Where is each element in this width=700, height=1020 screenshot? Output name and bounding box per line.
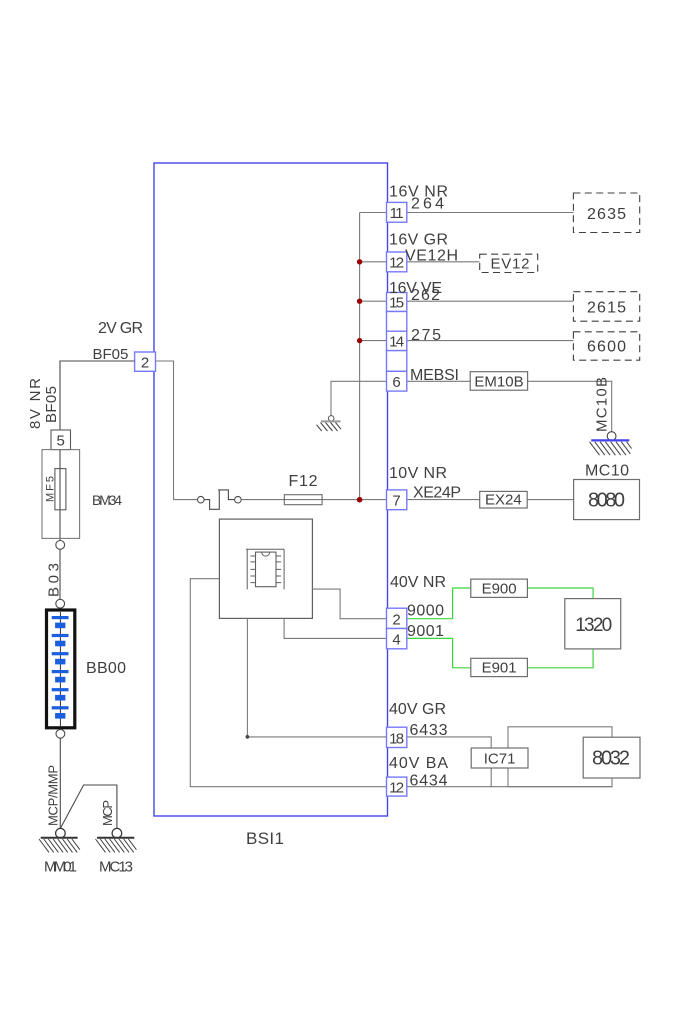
wire pin12 bottom external xyxy=(407,786,612,788)
ground internal BSI xyxy=(317,416,342,431)
svg-text:MCP/MMP: MCP/MMP xyxy=(46,765,61,826)
svg-text:MC13: MC13 xyxy=(99,859,133,876)
wire fuse F12 to pin 7 xyxy=(284,499,386,501)
wire pin15 to 2615 xyxy=(407,300,574,302)
svg-text:275: 275 xyxy=(411,327,441,344)
svg-text:MC10B: MC10B xyxy=(594,377,611,432)
svg-text:6434: 6434 xyxy=(410,773,448,790)
svg-text:9000: 9000 xyxy=(407,603,444,620)
pin 11 xyxy=(387,202,407,222)
wire pin15 internal xyxy=(360,300,387,302)
svg-text:8080: 8080 xyxy=(588,490,625,512)
pin 7 xyxy=(387,490,407,510)
svg-text:2615: 2615 xyxy=(587,300,626,317)
control unit BSI1 box xyxy=(154,163,388,816)
svg-text:IC71: IC71 xyxy=(484,751,516,768)
svg-text:EV12: EV12 xyxy=(491,256,530,273)
connector EX24 xyxy=(480,491,528,508)
pin 12 bottom xyxy=(387,777,407,796)
pin 12 xyxy=(387,252,407,272)
svg-text:16V GR: 16V GR xyxy=(389,232,448,249)
svg-text:E900: E900 xyxy=(482,581,517,598)
svg-text:VE12H: VE12H xyxy=(405,248,458,265)
connector 2615 dashed xyxy=(573,292,639,322)
wire pin12 to EV12 xyxy=(407,261,480,263)
wire pin12 internal xyxy=(360,261,387,263)
wire green 1320 to E901 xyxy=(527,649,593,668)
connector IC71 xyxy=(471,748,528,768)
wire pin14 to 6600 xyxy=(407,340,574,342)
connector EM10B xyxy=(470,372,527,391)
svg-text:6600: 6600 xyxy=(587,339,626,356)
svg-text:40V NR: 40V NR xyxy=(390,574,446,591)
svg-text:6433: 6433 xyxy=(410,722,448,739)
svg-text:14: 14 xyxy=(389,334,404,351)
connector E900 xyxy=(471,579,528,597)
junction elbow module-pin18 xyxy=(246,735,250,739)
pin 6 xyxy=(387,371,407,391)
wire module to pin4 xyxy=(284,618,386,638)
svg-text:8V NR: 8V NR xyxy=(27,378,44,429)
svg-text:9001: 9001 xyxy=(407,623,444,640)
svg-text:2635: 2635 xyxy=(587,206,626,223)
wire green E901 to pin4 xyxy=(407,638,471,667)
svg-text:BB00: BB00 xyxy=(86,660,126,677)
svg-text:1320: 1320 xyxy=(575,615,612,636)
empty pin cell xyxy=(387,312,407,332)
svg-text:12: 12 xyxy=(389,780,404,797)
svg-text:F12: F12 xyxy=(289,473,318,490)
IC U1 symbol xyxy=(246,549,284,589)
battery BB00 xyxy=(47,610,75,728)
ground MM01 xyxy=(39,828,80,852)
svg-text:264: 264 xyxy=(411,196,444,213)
svg-text:262: 262 xyxy=(411,287,440,304)
pin 4 right xyxy=(387,629,407,649)
svg-text:BF05: BF05 xyxy=(43,386,60,423)
svg-text:XE24P: XE24P xyxy=(413,485,461,502)
wire EX24 to 8080 xyxy=(527,499,573,501)
svg-text:MM01: MM01 xyxy=(44,859,77,876)
svg-text:7: 7 xyxy=(392,493,400,510)
ground MC13 xyxy=(96,828,137,852)
wire B03 xyxy=(59,549,61,599)
wire module to pin12 bottom xyxy=(190,579,386,787)
junction on bus at pin12 xyxy=(357,259,362,264)
fuse box BM34 xyxy=(42,450,80,539)
wire pin11 internal to bus xyxy=(360,212,387,214)
terminal circle battery top xyxy=(56,599,65,608)
svg-text:40V BA: 40V BA xyxy=(389,755,448,772)
connector 6600 dashed xyxy=(573,332,639,360)
wire pin11 to 2635 xyxy=(407,212,574,214)
svg-text:MF5: MF5 xyxy=(45,476,57,502)
connector 2635 dashed xyxy=(573,193,639,233)
connector EV12 dashed xyxy=(480,254,538,272)
wire EM10B to ground MC10B xyxy=(528,381,612,431)
wire pin2 left external xyxy=(60,361,135,430)
svg-text:8032: 8032 xyxy=(592,748,630,770)
svg-text:12: 12 xyxy=(389,255,404,272)
wire internal supply bus xyxy=(359,213,361,500)
wire pin7 to EX24 xyxy=(407,499,480,501)
svg-text:5: 5 xyxy=(57,433,65,450)
svg-text:4: 4 xyxy=(392,632,400,649)
svg-text:MCP: MCP xyxy=(100,800,115,826)
wire module to pin18 xyxy=(247,618,386,737)
junction on bus at pin14 xyxy=(357,338,362,343)
junction on bus at pin15 xyxy=(357,299,362,304)
pin 2 left xyxy=(135,352,156,372)
device 8032 xyxy=(583,737,640,778)
connector E901 xyxy=(471,658,528,676)
terminal circle below BM34 xyxy=(56,541,65,550)
svg-text:BSI1: BSI1 xyxy=(246,829,284,848)
wire loop rectangle IC71-8032 xyxy=(508,727,612,787)
pin 14 xyxy=(387,331,407,350)
pin 15 xyxy=(387,293,407,312)
svg-text:MC10: MC10 xyxy=(585,463,629,480)
svg-text:BM34: BM34 xyxy=(92,492,122,508)
empty pin cell xyxy=(387,351,407,372)
electronic module box inside BSI xyxy=(219,519,312,618)
wire through fuse MF5 xyxy=(59,450,61,541)
fuse MF5 xyxy=(55,469,66,510)
svg-text:40V GR: 40V GR xyxy=(389,701,446,718)
svg-text:MEBSI: MEBSI xyxy=(410,367,459,384)
wire green pin2 to E900 xyxy=(407,588,471,619)
wire green E900 to 1320 xyxy=(527,588,593,599)
wire battery to ground MM01 xyxy=(59,738,61,828)
device 8080 xyxy=(574,480,640,520)
pin 18 xyxy=(387,727,407,747)
svg-text:B03: B03 xyxy=(46,563,63,597)
wire pin18 external xyxy=(407,737,491,787)
terminal circle battery bottom xyxy=(56,729,65,738)
wire pin14 internal xyxy=(360,340,387,342)
pin 5 of BM34 xyxy=(51,430,71,450)
wire switch to fuse F12 xyxy=(241,499,284,501)
svg-text:2: 2 xyxy=(392,611,400,628)
wire pin6 to EM10B xyxy=(407,380,470,382)
svg-text:11: 11 xyxy=(390,205,404,222)
svg-text:10V NR: 10V NR xyxy=(389,465,447,482)
ground MC10B xyxy=(590,432,632,455)
svg-text:2: 2 xyxy=(141,355,149,372)
switch contact S1 xyxy=(198,490,242,509)
pin 2 right xyxy=(387,608,407,628)
svg-text:EX24: EX24 xyxy=(485,492,522,509)
device 1320 xyxy=(565,599,621,649)
wire module to pin2 xyxy=(312,589,386,619)
svg-text:6: 6 xyxy=(392,374,400,391)
wire pin6 internal to ground xyxy=(331,381,387,415)
svg-text:2V GR: 2V GR xyxy=(98,320,143,337)
fuse F12 xyxy=(284,495,322,505)
wire left pin2 internal to switch xyxy=(156,361,198,500)
svg-text:EM10B: EM10B xyxy=(474,373,523,390)
svg-text:18: 18 xyxy=(389,730,404,747)
wire MM01 to MC13 link xyxy=(60,785,117,828)
svg-text:E901: E901 xyxy=(482,660,517,677)
svg-text:15: 15 xyxy=(389,295,404,312)
junction at pin7 bus xyxy=(357,497,363,503)
